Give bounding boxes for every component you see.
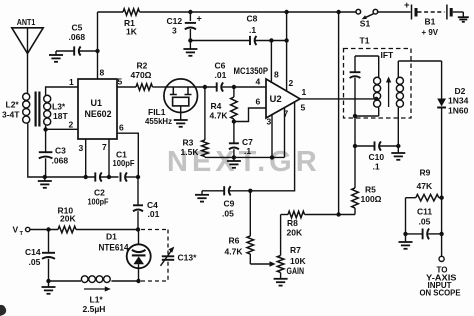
svg-text:100pF: 100pF: [88, 197, 109, 207]
wire U2 pin 7 drop: [284, 108, 286, 158]
svg-text:C13*: C13*: [178, 253, 198, 263]
resistor R5 100ohm: [352, 146, 382, 215]
svg-text:C10: C10: [369, 152, 385, 162]
node C11 right: [439, 232, 443, 236]
resistor R3 1.5K: [181, 87, 209, 157]
wire U1 pin 3 drop: [85, 139, 87, 177]
svg-text:20K: 20K: [287, 228, 303, 238]
node C1 right / pin6 / C4: [136, 175, 140, 179]
svg-text:18T: 18T: [53, 111, 68, 121]
svg-text:+: +: [197, 14, 202, 24]
svg-text:S1: S1: [360, 19, 371, 29]
svg-text:.1: .1: [249, 25, 256, 35]
coil T1 primary: [374, 56, 381, 116]
wire L3 bottom to U1 pin 2: [46, 125, 78, 129]
node T1 primary tap: [374, 97, 378, 101]
svg-text:U1: U1: [91, 98, 103, 108]
node C3 bottom / ground line: [43, 175, 47, 179]
capacitor C14 .05: [25, 230, 55, 282]
coil T1 secondary: [396, 61, 403, 146]
svg-text:C5: C5: [72, 23, 83, 33]
node C10 left: [353, 144, 357, 148]
svg-text:5: 5: [301, 103, 306, 113]
ground (C9): [195, 191, 209, 202]
svg-text:47K: 47K: [417, 181, 433, 191]
wire C5 node to U1 pin 8: [97, 12, 99, 79]
svg-text:L3*: L3*: [52, 102, 66, 112]
svg-text:B1: B1: [425, 17, 436, 27]
svg-text:V: V: [13, 225, 19, 235]
svg-text:+: +: [404, 0, 410, 11]
varactor D1 NTE614: [99, 230, 151, 282]
node R10 right / D1 top: [136, 227, 140, 231]
svg-text:1: 1: [302, 87, 307, 97]
wire U2 pin 3 drop: [271, 115, 273, 158]
svg-text:R7: R7: [290, 245, 301, 255]
capacitor C7 .1: [229, 122, 253, 158]
wire dashed C13 bottom: [141, 280, 168, 282]
node second rail / U2 pin8: [269, 38, 273, 42]
node C7 bottom: [232, 155, 236, 159]
svg-text:3-4T: 3-4T: [2, 110, 20, 120]
svg-text:ON SCOPE: ON SCOPE: [420, 289, 462, 298]
svg-text:NE602: NE602: [85, 109, 112, 119]
svg-text:.1: .1: [373, 162, 380, 172]
svg-text:+ 9V: + 9V: [422, 27, 439, 37]
node second rail / U2 pin2: [284, 38, 288, 42]
capacitor C12 3 (electrolytic): [167, 12, 202, 41]
wire T1 primary bottom: [355, 115, 379, 117]
wire +9V drop to R8/R5 node: [338, 12, 340, 215]
svg-text:U2: U2: [270, 94, 282, 105]
svg-text:3: 3: [172, 26, 177, 36]
diode D2 1N34/1N60: [437, 61, 468, 256]
svg-text:1N60: 1N60: [448, 106, 469, 116]
wire VT to R10: [30, 229, 58, 231]
node pin3 bottom: [270, 155, 274, 159]
node C12 top: [188, 10, 192, 14]
svg-text:C3: C3: [55, 146, 66, 156]
resistor R9 47K: [406, 168, 442, 202]
wire T1 primary top: [355, 55, 379, 57]
svg-text:1K: 1K: [126, 27, 138, 37]
svg-text:6: 6: [119, 123, 124, 133]
wire L3 top to U1 pin 1: [46, 87, 78, 95]
svg-text:.068: .068: [52, 156, 69, 166]
node L3 bottom / C3: [43, 127, 47, 131]
svg-text:GAIN: GAIN: [287, 266, 305, 276]
svg-text:20K: 20K: [60, 214, 76, 224]
coil L1 2.5uH: [49, 276, 139, 314]
svg-text:R9: R9: [420, 168, 431, 178]
svg-text:MC1350P: MC1350P: [234, 66, 269, 76]
potentiometer R7 10K GAIN: [277, 215, 306, 279]
wire dashed D1 to C13 top: [141, 229, 168, 231]
svg-text:1.5K: 1.5K: [181, 147, 200, 157]
svg-text:1: 1: [69, 77, 74, 87]
capacitor C11 .05: [406, 207, 442, 240]
svg-text:.05: .05: [419, 217, 431, 227]
node T1 cap bottom: [353, 114, 357, 118]
node R4 bottom / C7 top: [232, 119, 236, 123]
ground (battery): [458, 12, 469, 22]
resistor R2 470ohm: [131, 61, 165, 91]
IC U1 NE602: [78, 79, 117, 139]
ground (C14): [42, 281, 56, 294]
node pin7/ground line: [107, 175, 111, 179]
svg-text:L1*: L1*: [90, 295, 104, 305]
svg-text:C14: C14: [25, 247, 41, 257]
svg-text:C8: C8: [247, 14, 258, 24]
svg-text:NTE614: NTE614: [99, 243, 129, 253]
wire C6 to U2 pin 4: [234, 86, 266, 88]
ceramic filter FIL1 455kHz: [145, 79, 198, 126]
svg-text:4: 4: [256, 77, 261, 87]
resistor R8 20K: [281, 211, 355, 237]
capacitor C1 100pF: [113, 150, 139, 182]
wire U1 pin 7 drop: [108, 139, 110, 177]
capacitor C6 .01: [215, 61, 234, 92]
capacitor C10 .1: [355, 141, 398, 171]
node FIL1 out / R3: [203, 85, 207, 89]
svg-text:D1: D1: [106, 232, 117, 242]
svg-text:R3: R3: [183, 138, 194, 148]
svg-text:R5: R5: [365, 185, 376, 195]
node C14 bottom / L1: [46, 279, 50, 283]
transformer T1 dashed box: [344, 49, 412, 119]
node R9 right: [439, 196, 443, 200]
svg-text:R2: R2: [137, 61, 148, 71]
svg-text:6: 6: [256, 97, 261, 107]
wire U2 pin 8 drop: [270, 41, 272, 84]
svg-text:R6: R6: [229, 236, 240, 246]
wire top +9V rail left segment: [98, 11, 124, 13]
svg-text:C12: C12: [167, 16, 183, 26]
svg-text:T1: T1: [360, 36, 370, 46]
ground (R7): [274, 278, 288, 280]
resistor R1 1K: [123, 9, 140, 37]
svg-text:T: T: [20, 231, 24, 237]
switch S1: [356, 9, 378, 28]
svg-text:L2*: L2*: [6, 100, 20, 110]
wire U2 pin 6 to R4/C7 node: [234, 108, 266, 122]
node C10 right / secondary bottom: [396, 144, 400, 148]
resistor R6 4.7K: [225, 191, 254, 264]
node VT/C14: [46, 227, 50, 231]
coil L2 3-4T: [2, 93, 30, 123]
op-amp U2 MC1350P: [234, 66, 301, 118]
svg-text:.1: .1: [244, 146, 251, 156]
variable capacitor C13: [161, 230, 198, 282]
svg-text:470Ω: 470Ω: [131, 70, 152, 80]
ground (FIL1): [174, 119, 188, 121]
svg-text:3: 3: [79, 143, 84, 153]
node C6/R4/pin4: [232, 85, 236, 89]
capacitor C5 .068: [56, 23, 98, 56]
resistor R4 4.7K: [210, 87, 238, 122]
svg-text:455kHz: 455kHz: [145, 116, 172, 126]
wire U2 ground line (R3/C7/pin3/pin7): [205, 156, 285, 158]
terminal scope output: [420, 256, 462, 297]
wire U2 pin 2 drop: [286, 12, 288, 92]
resistor R10 20K: [58, 206, 139, 233]
node C9 right / R6 / pin5: [248, 189, 252, 193]
terminal VT: [13, 225, 30, 238]
capacitor C2 100pF: [88, 172, 119, 206]
ground (C10 / T1 secondary): [391, 146, 405, 160]
svg-text:C6: C6: [215, 61, 226, 71]
svg-text:.01: .01: [148, 209, 160, 219]
node C12 bottom: [188, 38, 192, 42]
coil L3 18T: [44, 95, 69, 125]
node pin3/ground line: [84, 175, 88, 179]
wire T1 secondary top to D2: [398, 60, 441, 62]
wire R9 left / C11 left: [405, 198, 407, 234]
svg-text:100pF: 100pF: [113, 158, 135, 168]
svg-text:.01: .01: [215, 70, 227, 80]
svg-text:2: 2: [69, 120, 74, 130]
capacitor C9 .05: [202, 186, 250, 218]
svg-text:2.5µH: 2.5µH: [83, 304, 106, 314]
transformer core L2/L3: [34, 92, 36, 127]
ground (C11): [399, 234, 413, 249]
svg-text:4.7K: 4.7K: [225, 247, 244, 257]
svg-text:R4: R4: [211, 101, 222, 111]
capacitor C3 .068: [39, 129, 69, 177]
decorative: [0, 305, 6, 316]
capacitor C4 .01: [133, 177, 160, 230]
svg-text:4.7K: 4.7K: [210, 111, 229, 121]
svg-text:8: 8: [274, 70, 279, 80]
svg-text:.068: .068: [69, 32, 86, 42]
capacitor (T1 internal trimmer): [350, 56, 361, 116]
wire U2 output pin 1 to T1 primary tap: [300, 98, 376, 100]
node C5/rail junction: [95, 49, 99, 53]
wire ground line left (L2/C3 to pin3): [45, 176, 95, 178]
wire R6 to R7 wiper (arrow): [250, 261, 275, 267]
svg-text:.05: .05: [29, 257, 41, 267]
svg-text:C11: C11: [417, 207, 432, 217]
ground (C3/L2): [38, 177, 52, 188]
node rail drop top: [336, 10, 340, 14]
capacitor C8 .1: [247, 14, 287, 46]
ground (C12): [183, 41, 197, 56]
antenna ANT1: [12, 17, 43, 54]
wire top +9V rail to S1: [140, 11, 357, 13]
svg-text:D2: D2: [455, 86, 466, 96]
svg-text:3: 3: [267, 117, 272, 127]
svg-text:IFT: IFT: [381, 50, 395, 60]
svg-text:1N34: 1N34: [448, 96, 469, 106]
wire U1 pin 6 down to C1/C4 node: [117, 133, 138, 177]
svg-text:10K: 10K: [290, 256, 306, 266]
wire L2 bottom to ground node: [28, 123, 45, 177]
node R8/R5/+9V junction: [336, 212, 340, 216]
node L1 right / D1 bottom: [136, 279, 140, 283]
ground (C7 line): [227, 157, 241, 167]
svg-text:R8: R8: [287, 218, 298, 228]
wire U1 pin 5 to R2: [117, 86, 136, 88]
svg-text:100Ω: 100Ω: [361, 194, 382, 204]
arrow (T1 core): [386, 77, 391, 108]
wire S1 to B1: [378, 11, 411, 13]
svg-text:7: 7: [102, 142, 107, 152]
svg-text:.05: .05: [222, 209, 234, 219]
node rail / pin2 line: [284, 10, 288, 14]
wire FIL1 to C6: [197, 86, 216, 88]
svg-text:C9: C9: [224, 199, 235, 209]
ground (C5): [49, 51, 63, 62]
svg-text:5: 5: [118, 77, 123, 87]
svg-text:8: 8: [100, 68, 105, 78]
wire U2 pin 5 to C9 node: [250, 102, 294, 191]
svg-text:2: 2: [289, 78, 294, 88]
node C11 left: [403, 232, 407, 236]
wire second rail: [190, 40, 249, 42]
wire T1 cap-bottom down to C10/R5: [354, 116, 356, 146]
svg-text:ANT1: ANT1: [17, 17, 36, 27]
battery B1 +9V: [404, 0, 463, 37]
wire antenna to L2: [27, 54, 29, 94]
